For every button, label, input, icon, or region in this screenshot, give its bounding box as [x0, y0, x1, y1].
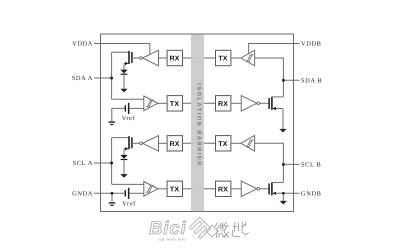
wire TX4 to barrier to RX (row4 cross) [183, 188, 215, 190]
junction SDA B [282, 79, 285, 82]
comparator A4 (SCL A sense) [144, 182, 158, 197]
wire U2 to RX3 [159, 142, 167, 144]
svg-text:up with you: up with you [159, 237, 186, 241]
ground (SCL A pulldown) [120, 174, 127, 178]
wire GNDB junction to ground [282, 193, 284, 201]
ground (SDA B pulldown) [279, 129, 286, 133]
wire U1 gate drive [132, 57, 140, 59]
svg-text:VDDA: VDDA [72, 41, 93, 48]
buffer U1 (RX driver) [143, 50, 159, 66]
transistor Q2 [128, 136, 130, 149]
wire B4 gate drive [260, 188, 269, 190]
svg-text:RX: RX [170, 56, 180, 63]
diode D2 [120, 155, 127, 159]
junction SCL B [282, 163, 285, 166]
RX2 box [216, 96, 231, 111]
svg-text:RX: RX [218, 186, 228, 193]
wire Q4 source / GNDB pin [272, 192, 300, 194]
transistor Q4 [271, 182, 273, 195]
svg-text:SDA A: SDA A [72, 75, 93, 82]
svg-text:TX: TX [218, 56, 227, 63]
wire B1 input from SDA B [255, 58, 284, 97]
wire internal SDA A vertical [111, 52, 113, 99]
wire GNDA pin / A4 bottom input [94, 192, 125, 194]
svg-text:TX: TX [218, 141, 227, 148]
comparator A2 (SDA A sense) [144, 96, 158, 111]
Q3 source arrow [273, 107, 276, 110]
wire comparator A2 top input [112, 98, 144, 100]
comparator B1 (SDA B sense) [241, 50, 255, 66]
svg-text:RX: RX [218, 101, 228, 108]
wire SCL A pin [94, 162, 112, 164]
wire comparator A4 top input [112, 183, 144, 185]
IC outline box [101, 34, 294, 212]
wire Q3 source to ground [282, 109, 284, 130]
buffer U2 [143, 136, 159, 152]
Vref battery B1 [125, 105, 126, 111]
svg-text:TX: TX [170, 101, 179, 108]
wire B2 gate drive [260, 102, 269, 104]
junction GNDA [111, 192, 114, 195]
TX4 box [167, 181, 182, 196]
svg-text:VDDB: VDDB [301, 41, 322, 48]
junction GNDB [282, 192, 285, 195]
wire Q1 drain lead [112, 51, 129, 53]
buffer B4 [241, 181, 257, 197]
svg-text:GNDA: GNDA [72, 191, 93, 198]
Q2 source arrow [125, 147, 128, 150]
wire Q4 drain lead [272, 181, 284, 183]
RX3 box [167, 136, 182, 151]
wire Q1 source lead [124, 63, 129, 65]
earth ground (GNDA) [109, 202, 116, 203]
svg-text:ISOLATION BARRIER: ISOLATION BARRIER [196, 83, 202, 166]
Q4 source arrow [273, 192, 276, 195]
wire TX1 to comparator B1 [231, 57, 241, 59]
wire Vref to earth [112, 108, 125, 121]
wire Q1 source to diode [123, 64, 125, 70]
wire GNDA junction to earth [111, 193, 113, 202]
logo mark (rotated E comb) [189, 217, 210, 238]
logo hanzi 1 [215, 222, 229, 238]
wire Q3 drain lead [272, 96, 284, 98]
TX2 box [167, 96, 182, 111]
wire D2 to ground [123, 160, 125, 174]
ground (GNDB) [280, 201, 287, 205]
svg-text:Bici: Bici [149, 218, 186, 238]
diode D1 [120, 70, 127, 74]
logo hanzi 2 [232, 222, 249, 237]
junction SDA A [110, 77, 113, 80]
TX1 box [216, 50, 231, 65]
wire A2 to TX2 [158, 102, 167, 104]
svg-text:GNDB: GNDB [301, 191, 322, 198]
transistor Q1 [128, 51, 130, 64]
wire VDDB rail to comparator supply [249, 44, 300, 54]
wire Q2 source to diode [123, 149, 125, 155]
wire RX2 to buffer B2 [231, 102, 241, 104]
wire TX2 to barrier to RX (row2 cross) [183, 102, 215, 104]
wire SDA B pin [283, 79, 299, 81]
wire B3 input from SCL B [255, 143, 284, 182]
svg-text:SDA B: SDA B [301, 78, 322, 85]
wire Q2 drain lead [112, 137, 129, 139]
wire A4 to TX4 [158, 188, 167, 190]
wire U1 to RX1 [159, 57, 167, 59]
wire D1 to ground [123, 75, 125, 89]
wire SCL B pin [283, 163, 299, 165]
isolation barrier bar [191, 35, 204, 211]
logo mark diamond [206, 225, 218, 237]
svg-text:Vref: Vref [122, 115, 136, 122]
Q1 source arrow [125, 62, 128, 65]
svg-text:SCL B: SCL B [301, 162, 321, 169]
junction SCL A [110, 162, 113, 165]
Vref battery B2 [125, 190, 126, 196]
ground (SDA A pulldown) [120, 89, 127, 93]
wire RX4 to buffer B4 [231, 188, 241, 190]
svg-text:TX: TX [170, 186, 179, 193]
wire RX1 to barrier to TX (row1 cross) [183, 57, 215, 59]
earth ground (Vref A2) [109, 121, 116, 122]
TX3 box [216, 136, 231, 151]
svg-text:Vref: Vref [122, 200, 136, 207]
buffer B2 [241, 96, 257, 112]
wire comparator A2 bottom input [129, 107, 143, 109]
wire Q2 source lead [124, 148, 129, 150]
wire RX3 to barrier to TX (row3 cross) [183, 142, 215, 144]
wire TX3 to comparator B3 [231, 142, 241, 144]
RX1 box [167, 50, 182, 65]
wire U2 gate drive [132, 142, 140, 144]
wire VDDA rail to buffer supply [94, 44, 150, 55]
svg-text:RX: RX [170, 141, 180, 148]
transistor Q3 [271, 97, 273, 110]
wire SDA A pin [94, 77, 112, 79]
wire internal SCL A vertical [111, 138, 113, 185]
RX4 box [216, 181, 231, 196]
comparator B3 (SCL B sense) [241, 136, 255, 152]
wire Q3 source lead [272, 108, 283, 110]
svg-text:SCL A: SCL A [73, 160, 93, 167]
